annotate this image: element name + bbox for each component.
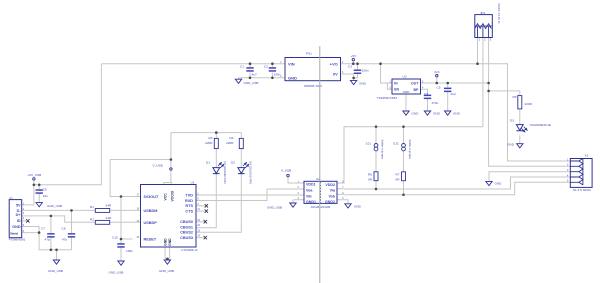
svg-text:C4: C4 [424,92,428,96]
svg-text:GND: GND [288,75,297,80]
svg-text:SJ1: SJ1 [366,142,372,146]
svg-text:3V3OUT: 3V3OUT [144,195,159,199]
svg-text:V_USB: V_USB [153,164,163,168]
svg-text:OSG50603C1E: OSG50603C1E [530,123,552,127]
svg-text:C3: C3 [348,65,352,69]
svg-text:IN: IN [394,81,398,85]
svg-text:R6: R6 [368,172,372,176]
svg-text:1: 1 [479,37,481,41]
svg-text:GND: GND [168,238,172,246]
svg-text:CTS: CTS [185,210,193,214]
svg-text:GND: GND [359,81,367,85]
svg-text:CBUS0: CBUS0 [180,220,193,224]
svg-text:47p: 47p [62,238,67,242]
svg-text:USBDP: USBDP [144,221,158,225]
svg-text:VIN: VIN [288,61,295,66]
svg-text:0R: 0R [368,177,373,181]
svg-text:3: 3 [23,213,25,215]
svg-text:VDD2: VDD2 [325,183,335,187]
svg-text:3v3: 3v3 [434,70,439,74]
svg-text:24R: 24R [106,216,112,220]
svg-text:D1: D1 [206,161,210,165]
svg-text:GND: GND [354,204,362,208]
svg-text:R1: R1 [90,205,94,209]
svg-text:C1: C1 [240,65,244,69]
svg-text:Vob: Vob [328,194,335,198]
svg-text:C2: C2 [264,65,268,69]
svg-text:+5V_USB: +5V_USB [28,173,42,177]
svg-text:19: 19 [136,237,139,239]
svg-text:C9: C9 [43,187,47,191]
svg-text:C8: C8 [62,227,66,231]
svg-text:RXD: RXD [185,199,193,203]
svg-text:D-: D- [17,209,22,213]
svg-text:D2: D2 [231,161,235,165]
svg-text:GND1: GND1 [306,200,316,204]
svg-text:10n: 10n [43,194,48,198]
svg-text:JP1: JP1 [480,11,486,15]
svg-text:GND: GND [163,238,167,246]
svg-text:Vlb: Vlb [306,194,312,198]
svg-text:GND2: GND2 [325,200,335,204]
svg-text:R3: R3 [209,136,213,140]
svg-text:+5V: +5V [351,54,358,58]
svg-text:BP: BP [414,88,420,92]
svg-text:220R: 220R [205,141,213,145]
svg-text:100n: 100n [362,68,369,72]
svg-text:220R: 220R [525,102,533,106]
svg-text:VDD1: VDD1 [306,183,316,187]
svg-text:IW0505 1W3: IW0505 1W3 [304,84,322,88]
svg-text:GND_USB: GND_USB [109,270,124,274]
svg-text:USBDM: USBDM [144,209,158,213]
svg-text:2u2: 2u2 [451,92,456,96]
svg-text:CBUS2: CBUS2 [180,231,193,235]
svg-text:GND_USB: GND_USB [267,206,282,210]
svg-text:Via: Via [330,189,336,193]
svg-text:OUT: OUT [411,82,419,86]
svg-text:47589-0001: 47589-0001 [9,238,26,242]
svg-text:SL 3.5 02/90: SL 3.5 02/90 [573,188,591,192]
svg-text:VCC: VCC [164,193,168,201]
svg-text:Shield: Shield [10,231,18,235]
svg-text:VCCIO: VCCIO [171,190,175,201]
svg-text:GND: GND [12,225,21,229]
svg-text:TXD: TXD [185,194,193,198]
svg-text:ID: ID [17,219,21,223]
svg-text:C7: C7 [41,227,45,231]
svg-text:X1: X1 [10,196,14,200]
svg-text:D3: D3 [510,119,514,123]
svg-text:Solder-in jumper: Solder-in jumper [408,140,412,160]
svg-text:GND: GND [403,90,411,94]
svg-text:GND: GND [433,112,441,116]
svg-text:470n: 470n [432,101,439,105]
svg-text:SJ2: SJ2 [393,142,399,146]
svg-text:KP-3216SEC-PRV: KP-3216SEC-PRV [223,162,227,185]
svg-text:GND: GND [453,112,461,116]
svg-text:100n: 100n [126,249,133,253]
svg-text:X2: X2 [585,154,589,158]
svg-text:RESET: RESET [144,237,157,241]
svg-text:U1: U1 [191,181,195,185]
svg-text:3: 3 [490,37,492,41]
svg-text:4u7: 4u7 [252,72,257,76]
svg-text:R5: R5 [513,95,517,99]
svg-text:C5: C5 [437,86,441,90]
svg-text:Solder-in jumper: Solder-in jumper [380,140,384,160]
svg-text:0R: 0R [396,177,401,181]
svg-text:GND: GND [507,143,515,147]
svg-text:22: 22 [197,225,200,227]
svg-text:CBUS1: CBUS1 [180,225,193,229]
svg-text:PS1: PS1 [306,52,312,56]
svg-text:GND_USB: GND_USB [244,81,259,85]
svg-text:Voa: Voa [306,189,313,193]
svg-text:ADuM1201AR: ADuM1201AR [311,205,332,209]
svg-text:CBUS3: CBUS3 [180,236,193,240]
svg-text:GND_USB: GND_USB [48,269,63,273]
svg-text:2: 2 [484,37,486,41]
svg-text:FT232RL-R: FT232RL-R [182,248,199,252]
svg-text:47p: 47p [45,238,50,242]
svg-text:D+: D+ [16,213,22,217]
svg-text:4: 4 [23,218,25,220]
svg-text:V_USB: V_USB [281,168,291,172]
svg-text:R2: R2 [90,218,94,222]
svg-text:R7: R7 [396,172,400,176]
svg-text:DC/DC 4.5-9V IN: DC/DC 4.5-9V IN [497,4,501,24]
svg-text:GND: GND [412,112,420,116]
svg-text:+VO: +VO [330,61,338,66]
svg-text:TS2950CX533: TS2950CX533 [377,96,398,100]
svg-text:24R: 24R [106,203,112,207]
svg-text:KP-3216SGC-PRV: KP-3216SGC-PRV [248,162,252,185]
svg-text:EN: EN [394,88,399,92]
svg-text:U3: U3 [403,75,407,79]
svg-text:0V: 0V [333,72,338,77]
svg-text:R4: R4 [230,136,234,140]
svg-text:GND_USB: GND_USB [159,269,174,273]
svg-text:C10: C10 [112,236,118,240]
svg-text:GND: GND [495,182,503,186]
svg-text:220R: 220R [226,141,234,145]
svg-text:5V: 5V [16,203,21,207]
svg-text:RTS: RTS [185,204,193,208]
svg-text:GND_USB: GND_USB [47,204,62,208]
